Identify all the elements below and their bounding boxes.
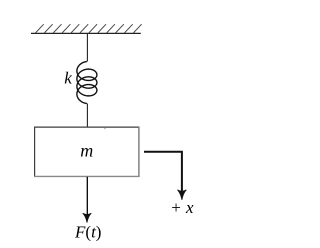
spring k [77,62,97,104]
svg-text:m: m [80,140,93,160]
svg-text:k: k [64,69,72,88]
fixed support hatching [36,24,142,33]
ceiling line [31,32,141,34]
displacement reference arrow +x [144,152,186,200]
svg-text:F(t): F(t) [74,223,101,242]
wire from spring to mass [86,104,88,128]
junction tick on mass top [104,127,106,129]
wire from ceiling to spring [86,34,88,62]
force arrow F(t) [83,177,92,223]
svg-text:+ x: + x [171,198,194,217]
mass m block [34,127,140,177]
